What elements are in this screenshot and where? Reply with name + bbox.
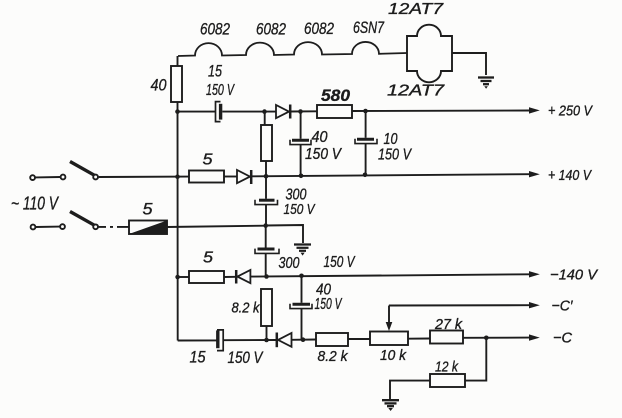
ground (top right)	[478, 78, 494, 89]
node row2 mid (cap40)	[299, 174, 304, 179]
wire: 27k to -C with arrow	[463, 337, 529, 339]
svg-text:+ 140 V: + 140 V	[548, 167, 593, 184]
resistor 5 (row4)	[189, 271, 224, 283]
tube 12AT7 heater block outline	[407, 25, 452, 83]
node row5 left	[264, 338, 269, 343]
wire: 580 to +250V rail with arrow	[352, 110, 529, 113]
wire: cap to node A	[222, 111, 276, 113]
svg-text:5: 5	[143, 200, 154, 219]
svg-text:12AT7: 12AT7	[387, 83, 446, 100]
resistor 580	[317, 105, 352, 118]
ground (middle)	[294, 245, 311, 256]
ground (bottom)	[382, 400, 399, 411]
svg-text:12AT7: 12AT7	[388, 1, 445, 18]
node -C branch	[484, 336, 489, 341]
diode D1 (row1)	[276, 105, 290, 119]
potentiometer 10k body	[370, 332, 408, 346]
diode D2 (row2)	[237, 170, 251, 184]
wire: D2 to +140V rail with arrow	[251, 174, 529, 176]
node A (row1 left)	[262, 109, 267, 114]
svg-text:15: 15	[190, 348, 206, 367]
wire: wiper to -C' with arrow	[389, 304, 529, 306]
resistor (bleeder, unlabeled)	[261, 125, 272, 161]
switch S2 (lower mains switch)	[31, 212, 98, 230]
ballast resistor 5 (slant-filled box)	[129, 221, 167, 235]
wire: -C node down to 12k	[465, 338, 486, 381]
diode D3 (row4, points left)	[236, 270, 250, 284]
diode D4 (row5, points left)	[277, 333, 292, 348]
capacitor 10/150V (row1-row2)	[355, 111, 377, 175]
wire: row1 bus to capacitor	[178, 111, 216, 113]
wire: node A to bleeder resistor	[264, 112, 266, 125]
capacitor 15/150V (top, tray left plate + thick right plate)	[216, 102, 221, 122]
svg-text:150 V: 150 V	[378, 147, 412, 164]
wire: row3 center node to ground stub	[266, 225, 304, 243]
svg-text:6082: 6082	[304, 19, 334, 38]
arrowhead -C	[529, 334, 540, 340]
node row2 bleeder junction	[264, 174, 269, 179]
switch S1 (upper mains switch)	[30, 162, 98, 181]
wire: D1 to 580	[290, 110, 317, 112]
node row5 mid	[301, 337, 306, 342]
svg-text:−C: −C	[553, 330, 572, 347]
wire: 10k to 27k	[408, 338, 430, 340]
arrowhead +250V	[529, 107, 540, 113]
svg-text:150 V: 150 V	[315, 296, 343, 313]
resistor 27k	[430, 331, 463, 344]
wire: 8.2k to row5	[266, 326, 268, 340]
wire: main AC bus vertical	[177, 56, 179, 341]
svg-text:6082: 6082	[256, 20, 286, 39]
wire: bus to row4 resistor	[178, 276, 190, 278]
wire: resistor to D3	[224, 276, 236, 278]
node row4 center	[264, 274, 269, 279]
arrowhead -C'	[529, 302, 540, 308]
arrowhead +140V	[529, 171, 540, 177]
capacitor 15/150V (bottom, thick left plate + tray right)	[217, 330, 223, 351]
svg-text:150 V: 150 V	[228, 348, 264, 367]
capacitor 40/150V (row1-row2)	[290, 112, 311, 176]
svg-text:8.2 k: 8.2 k	[318, 348, 349, 365]
svg-text:5: 5	[203, 250, 213, 267]
resistor 8.2k (horizontal)	[316, 333, 348, 346]
svg-text:10 k: 10 k	[380, 347, 407, 364]
wire: bus corner to bottom cap	[178, 339, 217, 341]
node C (row1 right)	[363, 109, 368, 114]
svg-text:8.2 k: 8.2 k	[232, 300, 261, 317]
svg-text:40: 40	[151, 76, 167, 95]
svg-text:300: 300	[279, 255, 300, 272]
wire: resistor to D2	[224, 176, 237, 178]
capacitor 300/150V (row2-row3)	[255, 176, 278, 225]
resistor 5 (row2)	[189, 171, 224, 183]
capacitor 300 (row3-row4)	[255, 226, 279, 277]
svg-text:−140 V: −140 V	[550, 267, 599, 284]
svg-text:150 V: 150 V	[324, 254, 356, 271]
svg-text:−C′: −C′	[552, 298, 574, 315]
node row2-bus	[175, 174, 180, 179]
svg-text:~ 110 V: ~ 110 V	[11, 194, 60, 214]
svg-text:15: 15	[208, 62, 222, 81]
wire: 8.2k to 10k	[348, 338, 370, 340]
wire: switch S2 to ballast (dash-dot)	[99, 226, 130, 228]
wire: D3 to -140V rail with arrow	[250, 274, 529, 276]
node row4 right (cap40 low)	[299, 274, 304, 279]
svg-text:12 k: 12 k	[435, 359, 459, 376]
wire: bleeder to row2	[265, 161, 267, 176]
node row1-bus	[175, 109, 180, 114]
node row2 right (cap10)	[363, 173, 368, 178]
resistor 8.2k (vertical)	[261, 289, 272, 326]
capacitor 40/150V (row4-row5)	[290, 276, 312, 340]
wire: row3 ballast to center node	[167, 226, 266, 227]
node B (row1 mid)	[298, 109, 303, 114]
wire: switch S1 to row2 resistor	[99, 176, 189, 178]
node row4-bus	[175, 275, 180, 280]
svg-text:150 V: 150 V	[206, 82, 235, 99]
wire: cap to node	[223, 339, 276, 341]
wire: 12k to ground	[390, 381, 430, 399]
svg-text:27 k: 27 k	[434, 316, 463, 333]
svg-text:+ 250 V: + 250 V	[548, 103, 594, 120]
svg-text:150 V: 150 V	[284, 201, 317, 218]
wire: 12AT7 to ground	[452, 53, 486, 75]
wire: D4 to 8.2k	[292, 339, 317, 341]
svg-text:6SN7: 6SN7	[353, 18, 384, 37]
svg-text:10: 10	[384, 131, 398, 148]
svg-text:40: 40	[312, 129, 328, 146]
potentiometer wiper arrow	[386, 306, 393, 331]
svg-text:6082: 6082	[200, 20, 230, 39]
svg-text:580: 580	[321, 87, 351, 105]
svg-text:5: 5	[203, 152, 213, 169]
svg-text:150 V: 150 V	[305, 146, 342, 163]
resistor 12k	[430, 374, 465, 387]
wire: top heater chain with bumps	[178, 42, 407, 56]
arrowhead -140V	[529, 271, 540, 277]
node row3 center	[263, 223, 268, 228]
resistor 40 (heater dropper)	[171, 66, 182, 102]
